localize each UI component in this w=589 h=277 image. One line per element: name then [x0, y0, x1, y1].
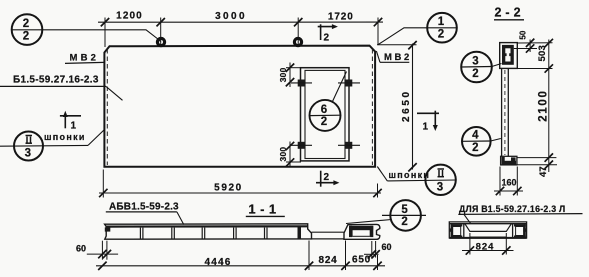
extension line x=105	[104, 18, 106, 48]
svg-text:824: 824	[476, 241, 495, 252]
callout circle 4/2	[462, 127, 491, 156]
1-1 rib lines	[140, 228, 267, 239]
dim 60 left (1-1)	[87, 241, 118, 260]
label MB2 left	[65, 53, 104, 64]
label ABV1.5-59-2.3	[106, 202, 184, 225]
svg-text:1: 1	[423, 122, 429, 133]
svg-text:ДЛЯ В1.5-59.27.16-2.3 Л: ДЛЯ В1.5-59.27.16-2.3 Л	[459, 204, 566, 214]
section title 2-2	[494, 6, 525, 20]
svg-text:3000: 3000	[215, 11, 247, 22]
door opening outer rect	[301, 68, 350, 161]
svg-text:60: 60	[382, 242, 392, 252]
svg-text:1: 1	[71, 121, 77, 132]
dimension 5920	[99, 192, 381, 194]
svg-text:2: 2	[23, 18, 29, 30]
section mark 2 top	[318, 24, 336, 40]
door opening inner rect	[305, 70, 345, 158]
detail left embed channel	[450, 224, 463, 238]
lifting loop 2	[294, 38, 301, 45]
dimension 300 (opening top)	[286, 63, 301, 88]
2-2 foot embed channel	[502, 157, 517, 165]
svg-text:шпонки: шпонки	[44, 132, 86, 142]
svg-text:Б1.5-59.27.16-2.3: Б1.5-59.27.16-2.3	[13, 75, 99, 86]
svg-text:4: 4	[472, 130, 479, 142]
leader 5/2 to block	[346, 220, 392, 224]
svg-text:1: 1	[438, 16, 445, 28]
svg-text:300: 300	[278, 67, 288, 82]
2-2 bottom foot	[501, 156, 517, 165]
1-1 left slab body	[105, 224, 312, 239]
panel inner dashed line left	[106, 49, 108, 165]
callout circle 1/2 top-right	[427, 13, 457, 43]
leader shponki left to edge	[88, 130, 105, 146]
svg-text:3: 3	[437, 181, 443, 193]
svg-text:2: 2	[472, 68, 478, 80]
svg-text:2: 2	[438, 29, 444, 41]
channel embed in right block	[349, 226, 373, 230]
leader 3/2	[492, 64, 502, 67]
dim 824 (detail)	[462, 233, 514, 255]
svg-text:5: 5	[401, 204, 408, 216]
leader from circle 1/2 to panel corner	[378, 28, 427, 45]
svg-text:824: 824	[318, 255, 337, 266]
label DLYA V1.5-59.27.16-2.3 L	[458, 204, 582, 223]
svg-text:6: 6	[321, 104, 327, 116]
panel outline	[104, 46, 375, 167]
leader shponki right to corner	[377, 167, 387, 181]
dim 50 (2-2)	[514, 40, 537, 53]
detail jamb slopes and sill	[465, 224, 512, 237]
1-1 heavy rib (embed) near opening	[298, 227, 302, 239]
svg-text:3: 3	[25, 148, 31, 160]
callout circle 2/2 top-left	[12, 14, 43, 45]
svg-text:2: 2	[23, 30, 29, 42]
2-2 wall strip	[502, 68, 509, 156]
embed plate top-right of opening	[338, 80, 360, 87]
1-1 right block	[344, 224, 380, 239]
svg-text:5920: 5920	[214, 183, 243, 194]
svg-text:2: 2	[321, 116, 327, 128]
svg-text:1720: 1720	[328, 12, 354, 23]
leader from circle 2/2 to loop 1	[42, 30, 160, 42]
top dimension line	[98, 21, 383, 23]
bottom dimension line (1-1)	[96, 265, 385, 267]
svg-text:2: 2	[401, 216, 407, 228]
svg-text:3: 3	[472, 55, 478, 67]
callout circle 3/2	[461, 52, 492, 83]
svg-text:2: 2	[324, 33, 330, 44]
dim chain line 503/2100/47 (2-2)	[517, 40, 557, 173]
extension line x=378	[377, 18, 379, 46]
2-2 top embed channel	[502, 45, 514, 65]
section mark 1 right	[417, 111, 439, 127]
svg-text:1-1: 1-1	[248, 202, 280, 217]
detail block outline	[449, 222, 526, 238]
embed plate bottom-right of opening	[338, 142, 360, 149]
svg-text:47: 47	[538, 166, 549, 177]
embed plate top-left of opening	[291, 80, 312, 87]
extension line x=160.5	[160, 18, 162, 47]
svg-text:2: 2	[324, 172, 330, 183]
svg-text:2-2: 2-2	[494, 6, 524, 20]
svg-text:300: 300	[278, 147, 288, 162]
callout circle II/3 right (shponki)	[387, 165, 456, 195]
svg-text:50: 50	[518, 30, 527, 39]
svg-text:503: 503	[537, 45, 548, 61]
1-1 sill through opening	[312, 232, 345, 239]
embed plate bottom-left of opening	[291, 142, 312, 149]
svg-text:160: 160	[501, 178, 516, 188]
section mark 1 left	[60, 113, 81, 128]
callout circle 6/2 in opening	[310, 72, 347, 131]
svg-text:2650: 2650	[401, 89, 412, 122]
dim 160 (2-2)	[494, 167, 523, 196]
svg-text:МВ2: МВ2	[384, 52, 412, 63]
dimension 300 (opening bottom)	[286, 142, 301, 168]
lifting loop 1	[157, 38, 164, 45]
dim 60 right (1-1)	[364, 241, 379, 258]
panel inner dashed line right	[371, 49, 373, 165]
callout circle 5/2	[382, 200, 426, 231]
svg-text:60: 60	[76, 244, 86, 254]
label B1.5-59.27.16-2.3	[0, 75, 123, 101]
extension line x=298.3	[297, 18, 299, 47]
section title 1-1	[246, 202, 285, 217]
svg-text:650: 650	[352, 254, 371, 265]
label MB2 right	[376, 51, 411, 63]
dimension 2650	[412, 44, 414, 170]
svg-text:АБВ1.5-59-2.3: АБВ1.5-59-2.3	[109, 202, 179, 213]
leader 4/2	[491, 139, 501, 142]
section mark 2 bottom	[316, 171, 338, 187]
svg-text:4446: 4446	[204, 257, 231, 268]
2-2 strip dashed centerline	[504, 70, 506, 155]
svg-text:2100: 2100	[538, 89, 550, 121]
detail right embed channel	[514, 224, 527, 238]
svg-text:2: 2	[472, 142, 478, 154]
svg-text:1200: 1200	[116, 10, 143, 21]
callout circle II/3 left (shponki)	[0, 132, 88, 161]
2-2 top block	[500, 43, 518, 69]
